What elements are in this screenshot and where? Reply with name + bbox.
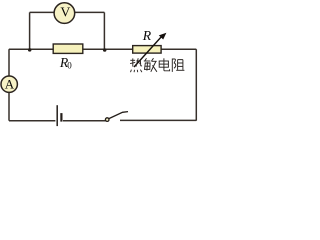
svg-text:0: 0 (67, 61, 72, 71)
wire right vertical (195, 49, 197, 121)
wire left branch vertical (29, 12, 31, 49)
label R (142, 28, 152, 43)
svg-text:V: V (60, 5, 70, 20)
svg-text:R: R (142, 28, 152, 43)
wire bottom right segment (120, 119, 196, 121)
wire middle horizontal (9, 48, 196, 50)
voltmeter V (54, 3, 75, 24)
glyph 热 (130, 58, 142, 72)
wire right branch vertical (103, 12, 105, 49)
wire bottom left segment (9, 120, 55, 122)
glyph 电 (159, 58, 169, 71)
label 热敏电阻 (hand-drawn glyphs) (130, 58, 184, 72)
wire bottom middle segment (63, 120, 106, 122)
wire top (voltmeter branch horizontal) (30, 11, 105, 13)
node junction dot right (103, 48, 107, 52)
wire left vertical (8, 49, 10, 121)
svg-text:A: A (5, 77, 15, 92)
glyph 敏 (144, 58, 157, 72)
battery long plate (56, 105, 58, 126)
thermistor R (resistor body) (133, 46, 161, 54)
label R0 (59, 55, 72, 71)
node junction dot left (28, 48, 32, 52)
ammeter A (1, 76, 17, 92)
switch lever (109, 112, 128, 119)
glyph 阻 (172, 59, 184, 72)
battery short plate (60, 113, 62, 122)
resistor R0 (53, 44, 83, 53)
switch S pivot (105, 118, 109, 122)
thermistor arrow (134, 33, 166, 67)
